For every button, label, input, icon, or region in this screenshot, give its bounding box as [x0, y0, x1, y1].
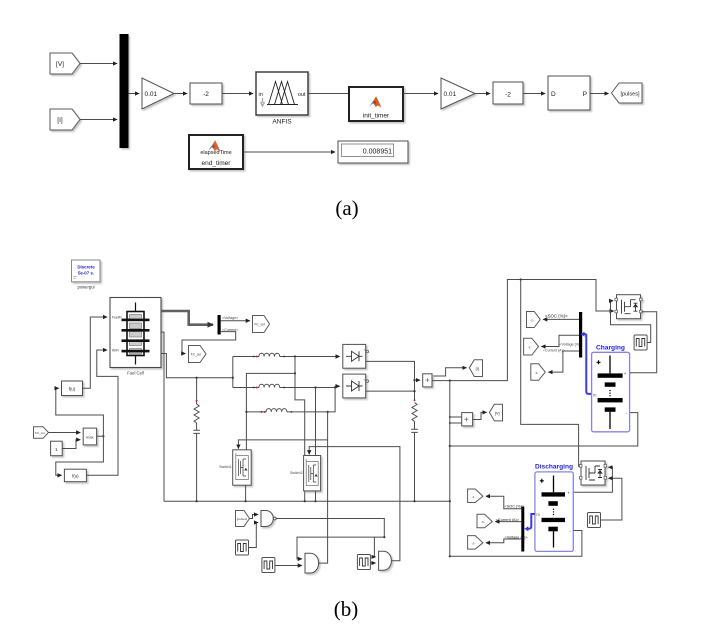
resistor R1	[194, 404, 199, 423]
svg-text:(a): (a)	[335, 196, 358, 220]
wire DP to pulses goto	[590, 93, 609, 95]
diode block D2	[343, 374, 366, 398]
inductor L1	[259, 353, 280, 356]
svg-text:<Voltage>: <Voltage>	[222, 316, 238, 320]
pulse generator P2	[262, 558, 275, 573]
switch2 block	[304, 456, 321, 491]
svg-text:in: in	[259, 92, 263, 98]
From tag [I]	[50, 109, 80, 130]
wire K2 to DP block	[523, 93, 545, 95]
ANFIS membership icon	[267, 82, 298, 105]
svg-text:elapsedTime: elapsedTime	[200, 150, 231, 156]
f(u) block	[62, 381, 83, 396]
svg-text:-s-: -s-	[472, 541, 476, 545]
svg-text:+: +	[624, 371, 627, 376]
RC branch 1	[196, 378, 198, 404]
svg-text:0.01: 0.01	[145, 91, 158, 98]
wire FC positive terminal feed to inductors	[161, 354, 233, 378]
svg-text:<Voltage (V): <Voltage (V)	[560, 342, 580, 346]
goto tag [I]	[469, 360, 482, 377]
svg-text:Discrete: Discrete	[77, 265, 95, 270]
wire BS2 out3	[549, 351, 580, 372]
NAND gate	[261, 511, 273, 527]
inductor L2	[259, 384, 280, 387]
wire v1 to [V] tag	[473, 412, 487, 419]
goto tag s2	[524, 338, 539, 355]
wire [I] to mux	[80, 119, 117, 121]
switch1 block	[233, 450, 252, 485]
voltage measurement block v1	[462, 413, 473, 426]
battery B2	[540, 479, 544, 483]
Charging box	[592, 352, 630, 432]
svg-text:(b): (b)	[334, 597, 359, 621]
goto tag d1	[468, 489, 483, 503]
goto tag d2	[477, 514, 492, 528]
wire K1 to ANFIS	[222, 93, 253, 95]
wire D2 out	[366, 390, 415, 392]
f(u)2 block	[64, 469, 86, 482]
from tag [pulses] b	[236, 511, 250, 527]
svg-text:m: m	[593, 392, 597, 397]
svg-text:AirFr: AirFr	[112, 349, 120, 353]
mux bar	[120, 34, 129, 148]
svg-text:<Current (A)>: <Current (A)>	[543, 349, 565, 353]
svg-text:init_timer: init_timer	[363, 113, 390, 120]
wire battery2 minus to bottom	[450, 531, 582, 557]
svg-text:[pulses]: [pulses]	[621, 92, 640, 98]
svg-text:-s-: -s-	[530, 318, 534, 322]
capacitor C1	[193, 423, 200, 501]
diode block D1	[343, 344, 366, 368]
svg-text:[V]: [V]	[495, 412, 500, 416]
svg-text:0.008951: 0.008951	[363, 149, 392, 156]
svg-text:out: out	[298, 92, 306, 98]
svg-text:<SOC (%)>: <SOC (%)>	[505, 505, 525, 509]
wire P1 to NAND	[249, 523, 259, 548]
ANFIS block U1	[256, 72, 308, 115]
goto tag FC_cur	[189, 346, 207, 363]
svg-text:-2: -2	[505, 92, 511, 99]
inductor L1 row	[233, 356, 259, 358]
wire A2 out up to switch1 gate	[238, 440, 327, 563]
goto tag s3	[531, 364, 546, 381]
svg-text:5e-07 s.: 5e-07 s.	[78, 271, 94, 276]
constant 1	[51, 441, 63, 456]
wire init_timer to gain G2	[403, 93, 438, 95]
svg-text:FC_cur: FC_cur	[35, 431, 45, 435]
pulse generator P5	[588, 513, 601, 528]
from tag FC_cur (left)	[34, 427, 49, 439]
wire G1 to K1	[174, 93, 187, 95]
wire ANFIS to init_timer	[308, 93, 349, 95]
wire to AND3 in1	[374, 537, 375, 557]
wire 1 to max	[62, 440, 80, 449]
svg-text:[pulses]: [pulses]	[237, 517, 248, 521]
wire D1 out	[366, 361, 415, 400]
svg-text:0.01: 0.01	[444, 91, 457, 98]
svg-text:m: m	[536, 512, 540, 517]
thick measurement bus wire FC to bus selector	[161, 311, 213, 325]
svg-text:FC_vol: FC_vol	[254, 323, 264, 327]
svg-text:-2: -2	[203, 91, 209, 98]
pulse generator P1	[236, 540, 249, 555]
Fuel Cell block	[110, 298, 161, 368]
svg-text:Switch2: Switch2	[290, 471, 303, 475]
wire [V] to mux	[80, 63, 117, 65]
svg-text:ANFIS: ANFIS	[272, 119, 292, 126]
vertical L2 junction to switch2	[315, 388, 317, 456]
battery B1	[597, 360, 601, 364]
powergui block	[72, 260, 101, 282]
wire battery2 plus to M2	[573, 467, 612, 492]
svg-text:f(u): f(u)	[69, 386, 76, 391]
wire FC negative terminal down to bottom bus	[161, 332, 164, 501]
svg-text:Fuel Cell: Fuel Cell	[127, 371, 144, 376]
svg-text:FC_cur: FC_cur	[191, 353, 202, 357]
max block	[83, 428, 96, 445]
init_timer block	[349, 87, 403, 121]
inductor L2 row	[233, 387, 259, 389]
pulse generator P3	[357, 555, 370, 570]
goto tag s1	[527, 312, 541, 328]
svg-text:Charging: Charging	[596, 344, 625, 351]
wire P2 to AND2	[275, 565, 302, 567]
From tag [V]	[50, 53, 80, 74]
wire pulses to NAND	[250, 515, 259, 519]
wire P5 to M2 gate	[601, 478, 622, 520]
svg-text:Discharging: Discharging	[535, 463, 573, 470]
AND gate A3	[379, 551, 392, 570]
wire mux to gain G1	[129, 93, 140, 95]
gain G1 0.01	[142, 78, 174, 109]
constant block K2 -2	[493, 82, 523, 104]
feed to discharging mosfet	[521, 280, 580, 467]
inductor L3 row	[246, 411, 266, 413]
wire end_timer to display	[243, 151, 335, 153]
wire A3 out up to switch2 gate	[309, 447, 400, 561]
switch1 power top / bottom	[245, 485, 247, 501]
wire max to f(u)2	[56, 436, 104, 475]
wire i1 main out up and across top	[432, 280, 614, 381]
bus selector BS2	[579, 312, 582, 358]
Discharging box	[535, 472, 573, 552]
wire f(u)2 to AirFr	[86, 350, 118, 475]
wire G2 to K2	[475, 93, 490, 95]
vertical through from L3 junction	[327, 412, 329, 440]
svg-text:-s-: -s-	[535, 371, 539, 375]
gain G2 0.01	[441, 78, 475, 109]
AND gate A2	[305, 553, 319, 573]
svg-text:-: -	[569, 529, 571, 534]
svg-text:[I]: [I]	[57, 117, 63, 124]
svg-text:max: max	[86, 435, 93, 439]
wire L1 out to L3 feed	[246, 357, 295, 450]
current measurement block i1	[415, 379, 420, 381]
constant block K1 -2	[190, 83, 222, 104]
svg-text:<SOC (%)>: <SOC (%)>	[545, 314, 568, 319]
svg-text:FuelFr: FuelFr	[112, 316, 123, 320]
discharging mosfet M2	[579, 461, 606, 485]
goto tag [V]	[489, 404, 502, 421]
svg-text:[V]: [V]	[56, 61, 64, 68]
wire to AND2 in1	[297, 537, 384, 559]
bus selector BS3	[521, 507, 524, 552]
inductor L3	[266, 409, 287, 412]
vertical return line x449.8	[449, 381, 451, 557]
wire NAND out	[276, 519, 384, 538]
svg-text:[I]: [I]	[476, 367, 479, 371]
wire P4 to M1 gate	[611, 301, 651, 343]
D-P subsystem block	[548, 76, 590, 110]
fuel cell stack icon	[135, 303, 137, 365]
wire max to f(u)	[56, 388, 104, 436]
wire jog down to bottom bus	[295, 373, 305, 501]
blue m wire charging	[586, 334, 591, 394]
goto tag d3	[468, 536, 483, 550]
capacitor C2	[411, 422, 418, 502]
blue m wire discharging	[527, 514, 535, 529]
bottom bus	[164, 500, 450, 502]
svg-text:+: +	[567, 490, 570, 495]
bus selector BS1	[218, 315, 221, 335]
svg-text:D: D	[551, 91, 556, 98]
svg-text:-: -	[626, 411, 628, 416]
svg-text:Switch1: Switch1	[219, 465, 232, 469]
pulse generator P4	[634, 335, 647, 350]
svg-text:P: P	[583, 91, 587, 98]
wire P3 to AND3	[370, 562, 375, 564]
svg-text:-s-: -s-	[528, 345, 532, 349]
display block 0.008951	[338, 141, 408, 163]
svg-text:f(u): f(u)	[72, 474, 79, 479]
svg-text:powergui: powergui	[78, 285, 95, 290]
svg-text:-s-: -s-	[481, 520, 485, 524]
Goto tag [pulses]	[612, 83, 643, 103]
svg-text:-s-: -s-	[472, 495, 476, 499]
battery negative return y446	[450, 413, 638, 446]
goto tag FC_vol	[253, 316, 270, 333]
resistor R2	[414, 399, 416, 401]
svg-text:end_timer: end_timer	[202, 160, 232, 167]
vertical joining L1/L2 feeds	[232, 357, 234, 388]
wire FC_cur to max	[49, 432, 81, 434]
wire i1 to [I] tag	[434, 368, 467, 376]
wire max out junction	[97, 435, 104, 437]
charging mosfet M1	[615, 295, 642, 319]
wire f(u) to FuelFr	[83, 317, 108, 388]
wire M1 out down to battery +	[630, 312, 657, 373]
end_timer block	[189, 135, 243, 169]
